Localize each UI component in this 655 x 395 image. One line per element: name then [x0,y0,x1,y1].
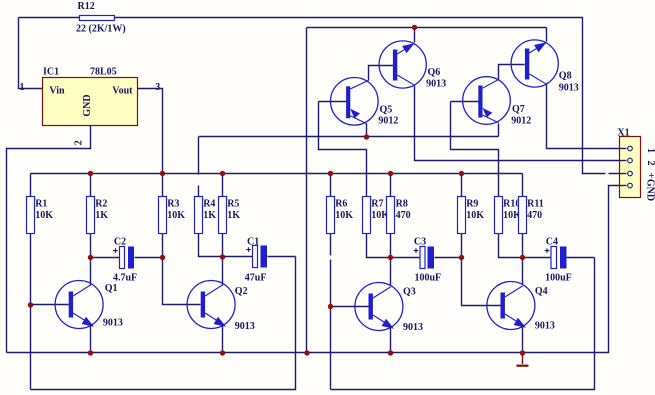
wire Vin from R12 [19,18,43,89]
wire X1 pin 1 stub [620,148,627,150]
svg-text:2: 2 [74,140,85,145]
svg-text:9013: 9013 [559,83,579,94]
svg-text:R3: R3 [167,198,179,209]
svg-text:GND: GND [645,179,655,201]
svg-text:Q6: Q6 [428,67,441,78]
X1 pin 2 circle [628,158,633,163]
X1 pin 1 circle [628,146,633,151]
svg-text:9013: 9013 [235,321,255,332]
wire R5 top stub [222,174,224,197]
svg-text:470: 470 [396,210,411,221]
svg-text:+: + [645,172,655,178]
wire R11 top stub [522,174,524,197]
svg-text:Vin: Vin [49,85,65,96]
svg-text:C4: C4 [546,236,558,247]
wire cross-coupling C4 to Q3 base [331,258,595,390]
junction top rail / Q6 emitter [412,25,417,30]
wire C4 right lead [567,257,595,259]
svg-text:3: 3 [155,82,160,93]
wire Q4 emitter drop [522,326,524,353]
svg-text:R7: R7 [371,198,383,209]
wire Q5 base jog down to R7 [319,102,367,197]
resistor R11 [519,197,527,234]
wire R9 top stub [461,174,463,197]
svg-text:X1: X1 [617,128,629,139]
svg-text:78L05: 78L05 [90,67,117,78]
wire Q3 collector riser [390,258,392,287]
wire pin 3 stub after gap [609,173,627,175]
capacitor C3 [420,247,425,269]
resistor R6 [327,197,335,234]
capacitor C1 [253,246,258,268]
svg-text:10K: 10K [35,210,53,221]
wire X1 pin 2 stub [620,160,627,162]
resistor R1 [27,197,35,234]
capacitor C4 [551,247,557,269]
wire Vout pin 3 to 5V bus [138,89,163,174]
junction Q3 collector node [388,255,393,260]
X1 pin 3 circle [628,171,633,176]
junction bus R8 [388,171,393,176]
wire R1 top stub [30,174,32,197]
wire R6 to Q3 base lower segment [330,260,332,307]
junction bus R9 [459,171,464,176]
wire Q1 base [31,304,69,306]
wire R3 top stub [162,174,164,197]
svg-text:Q2: Q2 [235,286,248,297]
resistor R8 [387,197,395,234]
wire X1 pin 3 stub [620,173,627,175]
wire Q6 emitter riser to top rail [414,28,416,43]
transistor Q6 [379,41,426,88]
svg-text:R12: R12 [78,1,95,12]
junction ground rail Q4 emitter ground [520,350,525,355]
C3 plus sign [414,248,419,253]
wire R6 top stub [330,174,332,197]
svg-text:4.7uF: 4.7uF [113,273,137,284]
svg-text:Q3: Q3 [403,287,416,298]
wire R8 top stub [390,174,392,197]
junction Q4 collector node [520,255,525,260]
svg-text:Q7: Q7 [512,104,525,115]
wire X1 pin 4 stub [620,185,627,187]
wire C1 right lead [268,256,296,258]
junction ground rail Q1 emitter [88,350,93,355]
junction ground rail Q2 emitter [220,350,225,355]
svg-text:9013: 9013 [426,78,446,89]
junction ground rail top-rect drop [304,350,309,355]
svg-text:9012: 9012 [511,116,531,127]
svg-text:10K: 10K [466,210,484,221]
wire PNP emitter rail [199,136,499,138]
svg-text:1: 1 [20,82,25,93]
svg-text:Vout: Vout [112,85,133,96]
svg-text:Q4: Q4 [535,286,548,297]
wire Q3 emitter drop [390,327,392,353]
transistor Q1 [55,281,103,329]
junction PNP rail / Q5 emitter [364,134,369,139]
wire Q2 emitter drop [222,325,224,353]
wire R11 bottom stub [522,234,524,258]
wire R6 bottom to Q3 base [330,234,332,256]
wire Q7 base jog down to R10 [451,102,499,197]
wire Q3 base [331,306,369,308]
transistor Q8 [511,40,558,87]
wire R1 bottom to Q1 base node and down [30,234,32,390]
connector X1 body [620,137,641,198]
wire Q4 collector riser [522,258,524,286]
resistor R10 [495,197,503,234]
wire R9 bottom to Q4 base [462,234,501,306]
resistor R12 [80,16,115,21]
svg-text:100uF: 100uF [545,273,572,284]
svg-text:47uF: 47uF [245,273,267,284]
wire Q6 collector to X1 pin 2 [415,86,627,161]
transistor Q2 [187,281,235,329]
svg-text:1K: 1K [95,210,108,221]
svg-text:R2: R2 [95,198,107,209]
svg-text:Q1: Q1 [105,283,118,294]
svg-text:2: 2 [645,161,655,166]
C4 plus sign [545,248,550,253]
wire ground rail [7,186,627,353]
svg-text:100uF: 100uF [415,273,442,284]
junction ground rail Q3 emitter [388,350,393,355]
svg-text:GND: GND [82,94,93,116]
C2 plus sign [113,248,118,253]
transistor Q3 [355,283,403,331]
resistor R9 [458,197,466,234]
wire Q7 collector to Q8 base [499,65,525,80]
resistor R3 [159,197,167,234]
wire R4 top to emitter rail (above bus) [198,137,200,175]
svg-text:22 (2K/1W): 22 (2K/1W) [76,24,126,35]
junction Q1 base node [28,302,33,307]
svg-text:R5: R5 [227,198,239,209]
resistor R4 [195,197,203,234]
wire Q6 Q8 emitter top rail [307,27,547,29]
svg-text:R1: R1 [35,198,47,209]
capacitor C2 [120,247,125,269]
transistor Q7 [463,77,511,125]
wire cross-coupling C1 to Q1 base [31,257,296,390]
junction Q2 collector node [220,254,225,259]
svg-text:Q5: Q5 [380,105,393,116]
svg-text:9012: 9012 [378,116,398,127]
wire Q5 base [319,101,347,103]
wire top rail to X1 pin 3 [115,18,606,174]
wire R5 bottom stub [222,234,224,257]
svg-text:R4: R4 [203,198,215,209]
C1 plus sign [246,247,251,252]
junction bus R3 Vout [160,171,165,176]
transistor Q5 [331,78,379,126]
svg-text:10K: 10K [335,210,353,221]
wire R4 bottom to R5 node [199,234,223,257]
junction Q3 base node [328,304,333,309]
wire GND pin 2 to left ground rail [7,126,91,353]
svg-text:C2: C2 [114,236,126,247]
junction bus R6 [328,171,333,176]
resistor R7 [363,197,371,234]
wire Q8 collector to X1 pin 1 [547,85,627,149]
wire Q1 emitter drop [90,325,92,353]
wire R7 bottom to R8 node [367,234,391,258]
svg-text:9013: 9013 [535,321,555,332]
wire R2 top stub [90,174,92,197]
wire C2 right lead to R3 node [135,257,163,259]
svg-text:10K: 10K [167,210,185,221]
wire R4 top segment below gap [198,186,200,197]
transistor Q4 [487,282,535,330]
svg-text:1K: 1K [203,210,216,221]
wire R8 bottom stub [390,234,392,258]
svg-text:9013: 9013 [403,322,423,333]
wire Q8 emitter riser to top rail [546,28,548,42]
svg-text:IC1: IC1 [43,67,59,78]
wire R12 left lead [19,17,80,19]
wire Q5 collector to Q6 base [369,66,394,81]
wire R3 bottom to Q2 base [163,234,201,305]
IC U1 78L05 body [43,78,138,126]
svg-text:1: 1 [645,148,655,153]
svg-text:R9: R9 [466,198,478,209]
wire C3 right lead [435,257,462,259]
svg-text:R10: R10 [503,198,520,209]
wire Q3 base down to cross-coupling [330,307,332,390]
wire R10 bottom to R11 node [499,234,523,258]
junction C2 R3 node [160,255,165,260]
svg-text:Q8: Q8 [559,70,572,81]
junction bus R5 [220,171,225,176]
svg-text:1K: 1K [227,210,240,221]
svg-text:R6: R6 [335,198,347,209]
wire C1 left lead [223,256,253,258]
svg-text:9013: 9013 [103,318,123,329]
X1 pin 4 circle [628,183,633,188]
junction C3 R9 node [459,255,464,260]
wire Q7 emitter drop to rail [498,124,500,137]
wire Q5 emitter drop to rail [366,124,368,137]
resistor R5 [219,197,227,234]
svg-text:R8: R8 [396,198,408,209]
wire C4 left lead [523,257,551,259]
junction bus R2 [88,171,93,176]
wire C2 left lead [91,257,120,259]
svg-text:470: 470 [527,210,542,221]
wire Q7 base [451,101,479,103]
svg-text:C1: C1 [247,236,259,247]
wire C3 left lead [391,257,420,259]
wire top rail left drop to ground rail [306,28,308,353]
wire Q2 collector riser [222,257,224,286]
wire Q1 collector riser [90,258,92,286]
resistor R2 [87,197,95,234]
wire R2 bottom to Q1 collector node [90,234,92,258]
svg-text:R11: R11 [527,198,544,209]
ground symbol [522,353,524,365]
wire 5V bus [31,173,523,175]
svg-text:C3: C3 [414,236,426,247]
junction Q1 collector node [88,255,93,260]
